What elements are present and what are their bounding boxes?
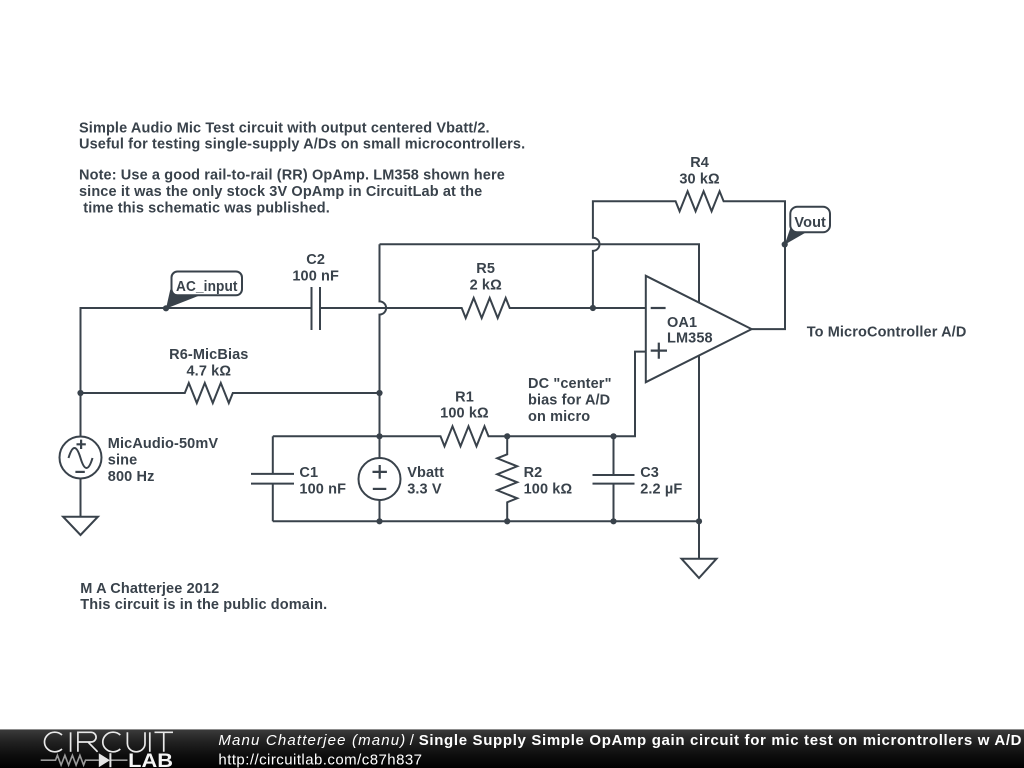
svg-text:Vbatt: Vbatt [407, 465, 444, 481]
svg-text:on micro: on micro [528, 409, 590, 425]
svg-text:R6-MicBias: R6-MicBias [169, 347, 248, 363]
svg-text:sine: sine [108, 452, 138, 468]
svg-text:2.2 µF: 2.2 µF [640, 481, 682, 497]
svg-text:100 nF: 100 nF [299, 481, 346, 497]
svg-text:100 nF: 100 nF [292, 268, 339, 284]
svg-text:4.7 kΩ: 4.7 kΩ [186, 364, 231, 380]
svg-text:LM358: LM358 [667, 331, 713, 347]
svg-text:Vout: Vout [794, 215, 826, 231]
svg-text:MicAudio-50mV: MicAudio-50mV [108, 436, 219, 452]
svg-text:/: / [410, 732, 415, 749]
svg-text:time this schematic was publis: time this schematic was published. [83, 200, 330, 216]
svg-text:C1: C1 [299, 465, 318, 481]
svg-text:C3: C3 [640, 465, 659, 481]
svg-text:100 kΩ: 100 kΩ [440, 406, 489, 422]
svg-text:DC "center": DC "center" [528, 376, 612, 392]
svg-text:3.3 V: 3.3 V [407, 481, 442, 497]
svg-text:This circuit is in the public: This circuit is in the public domain. [80, 597, 327, 613]
svg-text:bias for A/D: bias for A/D [528, 392, 610, 408]
svg-text:since it was the only stock 3V: since it was the only stock 3V OpAmp in … [79, 184, 482, 200]
svg-text:R4: R4 [690, 155, 709, 171]
svg-text:R2: R2 [524, 465, 543, 481]
svg-text:M A Chatterjee 2012: M A Chatterjee 2012 [80, 581, 219, 597]
svg-text:100 kΩ: 100 kΩ [524, 481, 573, 497]
svg-text:To MicroController A/D: To MicroController A/D [807, 325, 967, 341]
svg-text:C2: C2 [306, 252, 325, 268]
svg-text:LAB: LAB [128, 751, 173, 768]
svg-text:Manu Chatterjee (manu): Manu Chatterjee (manu) [218, 732, 405, 749]
svg-text:800 Hz: 800 Hz [108, 469, 155, 485]
svg-text:AC_input: AC_input [176, 279, 238, 295]
svg-text:Note: Use a good rail-to-rail: Note: Use a good rail-to-rail (RR) OpAmp… [79, 168, 505, 184]
svg-text:Useful for testing single-supp: Useful for testing single-supply A/Ds on… [79, 137, 525, 153]
svg-text:Simple Audio Mic Test circuit: Simple Audio Mic Test circuit with outpu… [79, 120, 490, 136]
svg-text:R1: R1 [455, 389, 474, 405]
svg-text:30 kΩ: 30 kΩ [679, 171, 720, 187]
svg-text:http://circuitlab.com/c87h837: http://circuitlab.com/c87h837 [218, 752, 422, 768]
svg-text:OA1: OA1 [667, 315, 697, 331]
svg-text:Single Supply Simple OpAmp gai: Single Supply Simple OpAmp gain circuit … [419, 732, 1022, 749]
svg-text:R5: R5 [476, 261, 495, 277]
svg-text:2 kΩ: 2 kΩ [470, 277, 503, 293]
